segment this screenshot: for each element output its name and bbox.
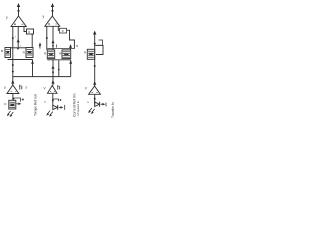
svg-text:Transfer fn: Transfer fn xyxy=(111,102,115,118)
svg-text:V: V xyxy=(4,86,7,90)
svg-text:R: R xyxy=(44,52,47,56)
svg-text:R: R xyxy=(28,30,30,34)
svg-text:R: R xyxy=(62,29,64,33)
svg-text:M: M xyxy=(1,49,4,53)
svg-text:t: t xyxy=(20,43,21,47)
svg-text:V: V xyxy=(44,86,47,90)
svg-text:u: u xyxy=(87,100,89,104)
svg-text:R: R xyxy=(23,51,26,55)
svg-text:u: u xyxy=(44,100,46,104)
svg-text:y: y xyxy=(43,15,45,19)
svg-text:of speed in: of speed in xyxy=(76,101,80,116)
svg-text:i: i xyxy=(15,35,16,39)
svg-text:Torque Ref out: Torque Ref out xyxy=(34,94,38,116)
svg-text:D: D xyxy=(4,102,7,106)
svg-text:V: V xyxy=(85,87,88,91)
svg-text:R: R xyxy=(76,44,78,48)
svg-text:S: S xyxy=(25,86,27,90)
svg-text:R: R xyxy=(84,51,87,55)
svg-text:y: y xyxy=(6,16,8,20)
